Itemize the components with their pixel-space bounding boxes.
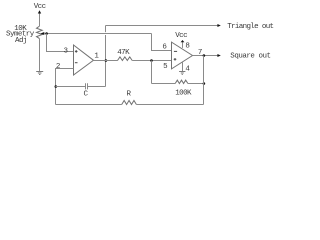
wire square vertical bbox=[203, 56, 205, 105]
wire 100K row left bbox=[152, 83, 176, 85]
potentiometer wiper arrow bbox=[41, 32, 45, 35]
op-amp U1B - sign bbox=[174, 50, 177, 52]
square out arrowhead bbox=[217, 54, 220, 57]
resistor 47K zigzag bbox=[118, 57, 133, 61]
svg-text:6: 6 bbox=[162, 43, 167, 51]
op-amp U1A - sign bbox=[75, 62, 78, 64]
pin 3 label bbox=[64, 47, 69, 55]
node pin2/cap junction bbox=[55, 85, 58, 88]
wire R row left bbox=[56, 104, 122, 106]
pin 8 stub and Vcc arrow bbox=[182, 42, 184, 48]
triangle out arrowhead bbox=[217, 24, 220, 27]
svg-text:8: 8 bbox=[185, 43, 190, 51]
ground (op2 pin 4) bbox=[179, 72, 185, 75]
node op2 output junction bbox=[203, 54, 206, 57]
wire pin 2 row and down to R row bbox=[56, 69, 74, 105]
svg-text:3: 3 bbox=[64, 47, 69, 55]
47K label bbox=[117, 49, 130, 57]
svg-text:5: 5 bbox=[163, 63, 168, 71]
svg-text:C: C bbox=[84, 91, 89, 99]
100K label bbox=[175, 90, 192, 98]
pin 8 label bbox=[185, 43, 190, 51]
wire cap row left bbox=[56, 86, 86, 88]
wire junction down to 100K row bbox=[151, 61, 153, 84]
10K Symetry Adj label bbox=[6, 25, 35, 45]
svg-text:1: 1 bbox=[94, 53, 99, 61]
wire wiper row bbox=[44, 33, 152, 35]
Triangle out label bbox=[227, 23, 273, 31]
op-amp U1B triangle bbox=[172, 42, 193, 69]
wire triangle node vertical (gap hop at wiper crossing) bbox=[105, 35, 107, 87]
pin 2 label bbox=[56, 63, 61, 71]
wire op1 output to 47K bbox=[93, 60, 117, 62]
svg-text:2: 2 bbox=[56, 63, 61, 71]
pin 4 stub bbox=[182, 62, 184, 71]
svg-text:Vcc: Vcc bbox=[34, 3, 46, 11]
pin 1 label bbox=[94, 53, 99, 61]
resistor 100K zigzag bbox=[175, 80, 188, 83]
capacitor C plates bbox=[85, 83, 87, 89]
svg-text:Vcc: Vcc bbox=[175, 32, 187, 40]
wire op2 output row bbox=[193, 55, 219, 57]
wire cap row right bbox=[88, 86, 106, 88]
wire triangle out row bbox=[106, 25, 219, 27]
capacitor C label bbox=[84, 91, 89, 99]
svg-text:Triangle out: Triangle out bbox=[227, 23, 273, 31]
pin 7 label bbox=[198, 49, 203, 57]
op-amp U1B + sign bbox=[174, 58, 177, 61]
svg-text:R: R bbox=[127, 91, 132, 99]
wire R row right bbox=[136, 104, 203, 106]
R label bbox=[127, 91, 132, 99]
node 100K/square vertical junction bbox=[203, 82, 206, 85]
op-amp U1A triangle bbox=[74, 45, 94, 75]
wire wiper junction down to pin 3 bbox=[47, 34, 74, 52]
Square out label bbox=[230, 53, 270, 61]
op-amp U1A + sign bbox=[75, 50, 78, 53]
svg-text:4: 4 bbox=[185, 65, 190, 73]
ground (pot bottom) bbox=[36, 72, 43, 75]
svg-text:47K: 47K bbox=[117, 49, 130, 57]
wire 100K row right bbox=[188, 83, 204, 85]
svg-text:Square out: Square out bbox=[230, 53, 270, 61]
potentiometer R1 10K body bbox=[37, 26, 43, 38]
Vcc label (op2 supply) bbox=[175, 32, 187, 40]
node 47K/pin5/100K junction bbox=[150, 59, 153, 62]
Vcc label (left supply) bbox=[34, 3, 46, 11]
resistor R zigzag bbox=[122, 101, 137, 105]
node op1 output junction bbox=[105, 59, 108, 62]
pin 4 label bbox=[185, 65, 190, 73]
svg-text:Adj: Adj bbox=[15, 37, 27, 45]
svg-text:100K: 100K bbox=[175, 90, 192, 98]
Vcc arrow (left supply) bbox=[39, 13, 41, 26]
svg-text:7: 7 bbox=[198, 49, 203, 57]
pin 5 label bbox=[163, 63, 168, 71]
pin 6 label bbox=[162, 43, 167, 51]
wire pot wiper down to pin 6 bbox=[152, 34, 172, 51]
wire 47K to op2 pin 5 bbox=[132, 60, 171, 62]
node wiper junction bbox=[45, 32, 48, 35]
